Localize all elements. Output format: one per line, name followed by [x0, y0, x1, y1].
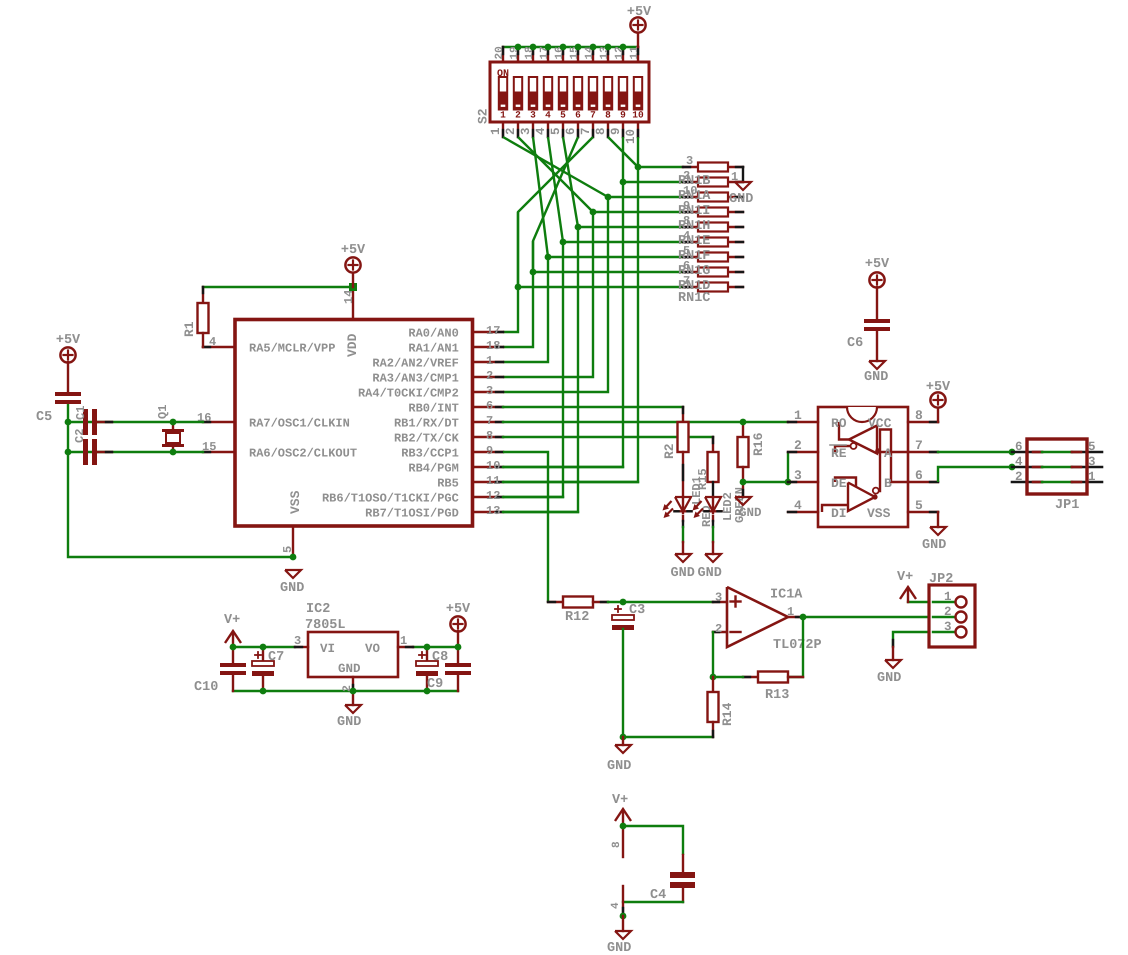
svg-text:RO: RO — [831, 416, 847, 431]
svg-text:4: 4 — [794, 498, 802, 513]
svg-text:11: 11 — [486, 474, 500, 488]
svg-text:7: 7 — [915, 438, 923, 453]
svg-text:+5V: +5V — [865, 257, 890, 272]
svg-text:2: 2 — [486, 369, 493, 383]
wire S2-2 diagonal — [518, 137, 593, 212]
wire minus input — [712, 632, 714, 677]
svg-text:5: 5 — [549, 127, 563, 135]
dot C3 bottom — [620, 734, 627, 741]
wire to RN row y287 — [518, 286, 683, 288]
svg-text:2: 2 — [944, 605, 952, 619]
wire R12 to opamp — [608, 601, 713, 603]
wire to RN row y212 — [593, 211, 683, 213]
wire to RN row y257 — [548, 256, 683, 258]
wire S2-10 — [637, 137, 639, 167]
svg-text:R16: R16 — [751, 432, 766, 456]
wire S2-6 diagonal — [533, 137, 578, 272]
svg-text:C4: C4 — [650, 888, 666, 903]
svg-text:GND: GND — [922, 538, 946, 553]
wire OSC2 line — [68, 451, 203, 453]
ground IC2 — [337, 705, 361, 730]
svg-text:12: 12 — [486, 489, 500, 503]
+5V supply above S2 — [627, 5, 652, 47]
resistor R13 — [743, 672, 803, 704]
capacitor C3 — [612, 603, 645, 737]
svg-text:Q1: Q1 — [156, 405, 170, 419]
dot pin5 — [290, 554, 297, 561]
ground C3 — [607, 737, 631, 774]
resistor network RN1 — [683, 163, 743, 292]
svg-text:RA7/OSC1/CLKIN: RA7/OSC1/CLKIN — [249, 416, 350, 430]
svg-text:9: 9 — [620, 110, 626, 121]
wire S2-8 diagonal — [608, 137, 638, 167]
JP1 labels — [1015, 440, 1096, 513]
svg-text:TL072P: TL072P — [773, 638, 822, 653]
IC U1 VDD pin 14 — [342, 287, 360, 357]
wire S2-4 diagonal — [548, 137, 563, 242]
resistor R2 — [662, 407, 689, 497]
IC U2 internal symbols — [822, 422, 908, 512]
dot C4 top — [620, 823, 627, 830]
svg-text:GND: GND — [877, 671, 901, 686]
svg-text:C1: C1 — [74, 406, 88, 420]
svg-text:GND: GND — [864, 370, 888, 385]
svg-text:1: 1 — [500, 110, 506, 121]
svg-text:RA1/AN1: RA1/AN1 — [408, 341, 458, 355]
wire column x518 — [503, 212, 518, 332]
wire V+ to JP2-1 — [908, 601, 955, 603]
svg-text:3: 3 — [686, 154, 693, 168]
svg-text:1: 1 — [1088, 470, 1096, 484]
svg-text:RA4/T0CKI/CMP2: RA4/T0CKI/CMP2 — [358, 386, 459, 400]
capacitor C5 — [36, 392, 81, 425]
svg-text:6: 6 — [1015, 440, 1023, 454]
wire RB4 — [503, 466, 623, 468]
svg-text:DI: DI — [831, 506, 847, 521]
wire R1 to pin14 — [203, 286, 353, 288]
svg-text:VI: VI — [320, 642, 335, 656]
wire RB0 to R2 — [503, 406, 683, 408]
wire column x623 — [503, 182, 623, 467]
capacitor C8 — [416, 647, 448, 691]
svg-text:R12: R12 — [565, 610, 589, 625]
svg-text:4: 4 — [545, 110, 551, 121]
wire column x578 — [503, 227, 578, 512]
V+ at JP2 — [897, 570, 916, 602]
svg-text:+5V: +5V — [446, 602, 471, 617]
svg-text:2: 2 — [794, 438, 802, 453]
wire 7805 out rail — [413, 646, 458, 648]
resistor R1 — [182, 287, 209, 347]
svg-text:9: 9 — [486, 444, 493, 458]
svg-text:2: 2 — [504, 127, 518, 135]
svg-text:RA6/OSC2/CLKOUT: RA6/OSC2/CLKOUT — [249, 446, 357, 460]
svg-text:7: 7 — [579, 127, 593, 135]
svg-text:VDD: VDD — [345, 333, 360, 357]
wire to RN row y242 — [563, 241, 683, 243]
svg-text:RB3/CCP1: RB3/CCP1 — [401, 446, 459, 460]
resistor R16 — [738, 422, 767, 482]
svg-text:3: 3 — [794, 468, 802, 483]
wire S2-1 diagonal — [503, 137, 608, 197]
wire RB2 to R15 — [503, 436, 713, 438]
wire S2-7 diagonal — [518, 137, 593, 287]
svg-text:C10: C10 — [194, 680, 218, 695]
svg-text:VSS: VSS — [288, 490, 303, 514]
svg-text:5: 5 — [560, 110, 566, 121]
svg-text:RB5: RB5 — [437, 476, 459, 490]
svg-text:RB1/RX/DT: RB1/RX/DT — [394, 416, 459, 430]
LED LED1 — [663, 476, 715, 554]
+5V at VDD — [341, 243, 366, 287]
capacitor C10 — [194, 647, 246, 695]
IC U1 PIC16F628 body — [235, 320, 473, 527]
wire opamp out — [803, 616, 955, 618]
ground JP2 — [877, 640, 901, 686]
svg-text:V+: V+ — [897, 570, 913, 585]
junction dots on +5V rail — [515, 44, 627, 51]
svg-text:DE: DE — [831, 476, 847, 491]
svg-text:VCC: VCC — [868, 416, 892, 431]
svg-text:RA2/AN2/VREF: RA2/AN2/VREF — [372, 356, 458, 370]
wire to RN row y272 — [533, 271, 683, 273]
svg-text:18: 18 — [486, 339, 500, 353]
svg-text:IC1A: IC1A — [770, 588, 803, 603]
svg-text:V+: V+ — [224, 613, 240, 628]
svg-text:VSS: VSS — [867, 506, 891, 521]
wire gnd rail 7805 — [233, 690, 458, 692]
dot C3 top — [620, 599, 627, 606]
wire to RN row y167 — [638, 166, 683, 168]
svg-text:14: 14 — [342, 290, 356, 304]
+5V at U2 VCC — [926, 380, 951, 422]
svg-text:GND: GND — [338, 662, 361, 676]
svg-text:V+: V+ — [612, 793, 628, 808]
svg-text:1: 1 — [944, 590, 952, 604]
svg-text:+5V: +5V — [341, 243, 366, 258]
svg-text:VO: VO — [365, 642, 381, 656]
svg-text:RA5/MCLR/VPP: RA5/MCLR/VPP — [249, 341, 335, 355]
switch S2 — [476, 46, 650, 144]
IC1 power pin4 — [610, 886, 623, 916]
svg-text:6: 6 — [564, 127, 578, 135]
wire column x608 — [503, 197, 608, 392]
svg-text:4: 4 — [209, 335, 216, 349]
svg-text:GND: GND — [739, 506, 762, 520]
svg-text:R14: R14 — [720, 702, 735, 726]
svg-text:2: 2 — [715, 622, 722, 636]
wire column x593 — [503, 212, 593, 377]
svg-text:RE: RE — [831, 446, 847, 461]
svg-text:4: 4 — [534, 127, 548, 135]
capacitor C2 — [73, 429, 112, 465]
svg-text:RB0/INT: RB0/INT — [408, 401, 458, 415]
wire +5V rail above S2 — [503, 46, 638, 48]
wire RB3 to R12 — [503, 452, 548, 602]
dots R16 — [740, 419, 792, 486]
wire OSC1 line — [68, 421, 203, 423]
svg-text:10: 10 — [624, 129, 638, 144]
wire RB6 — [503, 496, 563, 498]
crystal Q1 — [156, 405, 184, 452]
IC2 labels — [294, 602, 407, 692]
wire column x563 — [503, 242, 563, 497]
wire RB1 to RO — [503, 421, 788, 423]
svg-text:RA3/AN3/CMP1: RA3/AN3/CMP1 — [372, 371, 458, 385]
svg-text:JP2: JP2 — [929, 572, 953, 587]
svg-text:RB2/TX/CK: RB2/TX/CK — [394, 431, 460, 445]
capacitor C6 — [847, 319, 890, 361]
svg-text:9: 9 — [609, 127, 623, 135]
svg-text:C6: C6 — [847, 336, 863, 351]
wire B to JP1 — [938, 467, 1012, 482]
svg-text:GND: GND — [671, 566, 695, 581]
dot pin14 — [349, 283, 357, 291]
svg-text:+5V: +5V — [56, 333, 81, 348]
wire C3 gnd row — [623, 736, 713, 738]
wire V+ rail 7805 — [233, 646, 295, 648]
svg-text:4: 4 — [610, 902, 622, 909]
junction dots RN corners — [515, 164, 642, 291]
svg-text:R15: R15 — [696, 468, 710, 490]
svg-text:GND: GND — [607, 759, 631, 774]
svg-text:R13: R13 — [765, 688, 789, 703]
ground U2 pin5 — [922, 512, 946, 553]
svg-text:7: 7 — [486, 414, 493, 428]
wire C4 bottom — [623, 901, 683, 903]
resistor R12 — [548, 597, 608, 626]
IC U1 right pins — [473, 332, 503, 512]
svg-text:RN1C: RN1C — [678, 291, 710, 306]
svg-text:5: 5 — [281, 546, 295, 553]
IC U2 pins — [788, 408, 938, 513]
svg-text:+5V: +5V — [627, 5, 652, 20]
dots 7805 — [230, 644, 462, 695]
svg-text:RB7/T1OSI/PGD: RB7/T1OSI/PGD — [365, 506, 459, 520]
svg-text:GND: GND — [698, 566, 722, 581]
+5V at C6 — [865, 257, 890, 319]
connector JP2 — [929, 572, 975, 647]
V+ at C4 — [612, 793, 631, 826]
svg-text:1: 1 — [489, 127, 503, 135]
svg-text:C3: C3 — [629, 603, 645, 618]
wire to RN row y182 — [623, 181, 683, 183]
ground at RN1 pin1 — [729, 167, 753, 207]
svg-text:6: 6 — [575, 110, 581, 121]
svg-text:3: 3 — [944, 620, 952, 634]
resistor R15 — [696, 437, 719, 497]
svg-text:C8: C8 — [432, 650, 448, 665]
wire C4 top — [623, 826, 683, 855]
wire feedback — [788, 617, 803, 677]
ground LED2 — [698, 554, 722, 581]
+5V at 7805 out — [446, 602, 471, 647]
svg-text:7: 7 — [590, 110, 596, 121]
svg-text:8: 8 — [605, 110, 611, 121]
wire gnd rail left — [68, 403, 293, 557]
svg-text:GND: GND — [337, 715, 361, 730]
capacitor C1 — [74, 406, 112, 435]
svg-text:6: 6 — [486, 399, 493, 413]
ground C4 — [607, 916, 631, 955]
wire to RN row y227 — [578, 226, 683, 228]
wire column x548 — [503, 257, 548, 362]
svg-text:7805L: 7805L — [305, 618, 346, 633]
svg-text:1: 1 — [787, 605, 794, 619]
svg-text:13: 13 — [486, 504, 500, 518]
LED LED2 — [693, 487, 748, 554]
svg-text:10: 10 — [486, 459, 500, 473]
svg-text:10: 10 — [632, 110, 644, 121]
V+ at C10 — [224, 613, 241, 647]
svg-text:1: 1 — [794, 408, 802, 423]
wire R13 to node — [713, 676, 743, 678]
svg-text:3: 3 — [530, 110, 536, 121]
svg-text:3: 3 — [519, 127, 533, 135]
svg-text:1: 1 — [486, 354, 493, 368]
connector JP1 body — [1027, 439, 1087, 494]
svg-text:RA0/AN0: RA0/AN0 — [408, 326, 458, 340]
svg-text:3: 3 — [1088, 455, 1096, 469]
+5V at C5 — [56, 333, 81, 393]
wire column x533 — [503, 241, 533, 347]
wire S2-3 diagonal — [533, 137, 548, 257]
svg-text:2: 2 — [515, 110, 521, 121]
wire RB7 — [503, 511, 578, 513]
dot fb node — [710, 674, 717, 681]
IC U1 VSS pin 5 — [281, 490, 303, 557]
wire column x638 — [503, 167, 638, 482]
svg-text:3: 3 — [715, 591, 722, 605]
IC U2 labels — [830, 416, 892, 521]
wire RE-DE tie — [743, 452, 788, 482]
IC U2 RS-485 body — [818, 407, 908, 527]
svg-text:GND: GND — [280, 581, 304, 596]
svg-text:C5: C5 — [36, 410, 52, 425]
ground under IC — [280, 570, 304, 596]
svg-text:1: 1 — [400, 634, 407, 648]
svg-text:4: 4 — [1015, 455, 1023, 469]
RN labels — [678, 154, 738, 306]
resistor R14 — [708, 677, 736, 737]
svg-text:+5V: +5V — [926, 380, 951, 395]
wire RB5 — [503, 481, 638, 483]
svg-text:8: 8 — [486, 429, 493, 443]
svg-text:8: 8 — [915, 408, 923, 423]
capacitor C9 — [427, 647, 471, 692]
svg-text:B: B — [884, 476, 892, 491]
ground C6 — [864, 361, 888, 385]
ground LED1 — [671, 554, 695, 581]
svg-text:5: 5 — [915, 498, 923, 513]
svg-text:GND: GND — [729, 192, 753, 207]
dot opamp out — [800, 614, 807, 621]
ground R16 — [735, 482, 762, 520]
svg-text:IC2: IC2 — [306, 602, 330, 617]
op-amp IC1A — [713, 587, 822, 653]
IC2 7805 body — [295, 632, 413, 705]
svg-text:RB4/PGM: RB4/PGM — [408, 461, 458, 475]
svg-text:ON: ON — [497, 69, 509, 80]
IC U1 left pins — [203, 347, 233, 452]
IC U1 right pin names — [322, 324, 500, 520]
connector JP1 pins — [1012, 452, 1102, 482]
svg-text:RB6/T1OSO/T1CKI/PGC: RB6/T1OSO/T1CKI/PGC — [322, 491, 459, 505]
wire S2-5 diagonal — [563, 137, 578, 227]
svg-text:3: 3 — [486, 384, 493, 398]
dots crystal — [65, 419, 177, 456]
svg-text:6: 6 — [915, 468, 923, 483]
svg-text:3: 3 — [294, 634, 301, 648]
capacitor C4 — [650, 855, 695, 903]
dots JP1 wires — [1009, 449, 1016, 471]
wire to RN row y197 — [608, 196, 683, 198]
svg-text:2: 2 — [1015, 470, 1023, 484]
svg-text:8: 8 — [594, 127, 608, 135]
wire JP2-3 gnd — [893, 632, 955, 647]
wire S2-9 — [622, 137, 624, 182]
svg-text:GND: GND — [607, 941, 631, 955]
IC1 power pin8 — [611, 826, 623, 857]
svg-text:17: 17 — [486, 324, 500, 338]
svg-text:R2: R2 — [662, 443, 677, 459]
svg-text:C2: C2 — [73, 429, 87, 443]
capacitor C7 — [252, 647, 284, 691]
dot C4 gnd — [620, 913, 627, 920]
svg-text:A: A — [884, 446, 892, 461]
svg-text:S2: S2 — [476, 108, 491, 124]
svg-text:JP1: JP1 — [1055, 498, 1079, 513]
svg-text:20: 20 — [494, 46, 506, 59]
svg-text:8: 8 — [611, 841, 623, 848]
wire A to JP1 — [938, 451, 1012, 453]
svg-text:5: 5 — [1088, 440, 1096, 454]
IC U1 left pin names — [197, 335, 357, 460]
svg-text:C7: C7 — [268, 650, 284, 665]
svg-text:R1: R1 — [182, 321, 197, 337]
